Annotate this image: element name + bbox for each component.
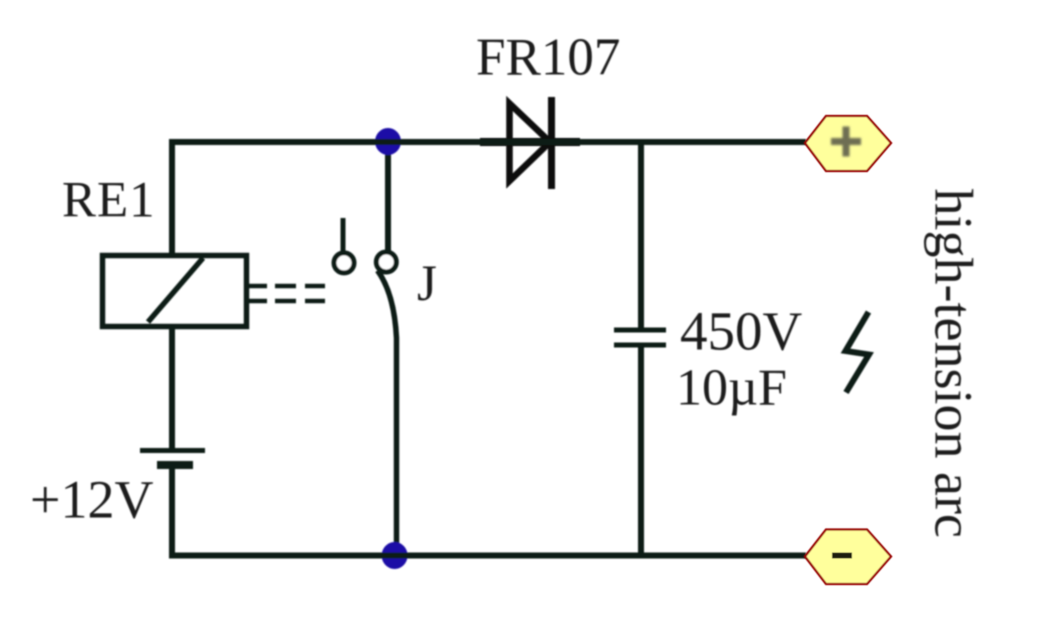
relay mechanical linkage dashes xyxy=(249,286,325,301)
switch J blade xyxy=(378,271,397,557)
wire bottom horizontal net xyxy=(169,553,806,559)
label FR107 xyxy=(476,29,620,87)
terminal + positive output xyxy=(805,116,891,171)
node bottom junction xyxy=(382,542,408,569)
wire left vertical to relay top xyxy=(169,139,175,254)
lightning bolt arc symbol xyxy=(846,312,870,393)
svg-text:+12V: +12V xyxy=(30,470,153,530)
diode FR107 xyxy=(480,97,580,189)
svg-text:450V: 450V xyxy=(680,301,803,362)
wire top junction to switch pole xyxy=(385,142,391,252)
wire capacitor branch lower xyxy=(638,345,644,556)
svg-text:high-tension arc: high-tension arc xyxy=(924,189,984,538)
svg-text:10µF: 10µF xyxy=(676,360,787,417)
label 10uF xyxy=(676,360,787,417)
plus mark on positive terminal xyxy=(831,127,861,157)
wire battery to bottom net xyxy=(169,466,175,558)
switch J fixed contact stub xyxy=(341,218,346,252)
label 450V xyxy=(680,301,803,362)
svg-text:J: J xyxy=(417,256,437,312)
wire relay bottom to battery xyxy=(169,329,175,452)
switch J fixed contact circle xyxy=(334,253,354,273)
node top junction xyxy=(375,128,401,155)
switch J pole contact circle xyxy=(376,252,396,272)
capacitor C1 plates xyxy=(614,330,666,345)
label high-tension arc xyxy=(924,189,984,538)
label +12V xyxy=(30,470,153,530)
wire capacitor branch upper xyxy=(638,142,644,330)
terminal - negative output xyxy=(805,530,891,585)
relay RE1 coil box xyxy=(103,256,247,327)
battery +12V xyxy=(140,451,205,466)
svg-text:RE1: RE1 xyxy=(62,173,156,229)
label J xyxy=(417,256,437,312)
wire top horizontal net xyxy=(172,139,806,145)
label RE1 xyxy=(62,173,156,229)
svg-text:FR107: FR107 xyxy=(476,29,620,87)
